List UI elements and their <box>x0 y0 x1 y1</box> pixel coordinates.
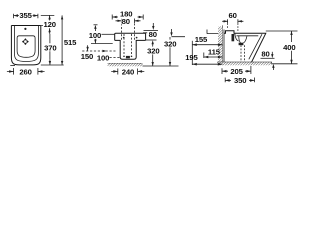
svg-text:320: 320 <box>164 39 176 48</box>
wide back rect <box>115 33 146 40</box>
svg-text:370: 370 <box>44 43 56 52</box>
dim 80 (top) <box>116 17 141 26</box>
ext of rect top to right <box>143 30 222 37</box>
svg-text:80: 80 <box>261 49 269 58</box>
dim 120 (right of left view) <box>41 15 57 33</box>
svg-text:205: 205 <box>230 67 243 76</box>
svg-text:400: 400 <box>283 43 295 52</box>
hidden dashed lines <box>122 23 135 40</box>
dim 320 left column <box>147 46 159 66</box>
dim 355 (top) <box>14 11 38 20</box>
dim 60 (top of side view) <box>222 11 243 31</box>
drain clover <box>22 38 29 45</box>
dim 155 <box>192 35 222 65</box>
dim 150 / 100 lower <box>81 45 120 62</box>
floor ext to 400 line <box>271 63 298 65</box>
svg-text:260: 260 <box>19 67 31 76</box>
svg-text:120: 120 <box>44 20 56 29</box>
dim 195 <box>185 53 222 66</box>
small dots bottom <box>123 56 125 58</box>
dim 515 <box>41 15 77 65</box>
dim 115 <box>204 48 223 59</box>
dim 240 (bottom) <box>111 67 144 76</box>
faucet hole dot <box>24 28 26 30</box>
svg-text:115: 115 <box>208 48 221 57</box>
dim 400 <box>281 31 298 64</box>
svg-text:60: 60 <box>228 11 236 20</box>
top ext to 400 <box>266 30 298 32</box>
jet nozzle dark <box>232 34 235 41</box>
bidet outer body <box>11 26 40 65</box>
dim 350 <box>225 76 254 85</box>
drain box <box>239 43 244 46</box>
inner shell pair <box>14 26 38 62</box>
dim 260 (bottom) <box>7 65 45 76</box>
svg-text:80: 80 <box>122 17 130 26</box>
floor ext line under columns <box>143 65 179 67</box>
drain mark <box>126 56 130 58</box>
svg-text:155: 155 <box>195 35 208 44</box>
svg-text:240: 240 <box>122 67 134 76</box>
svg-text:150: 150 <box>81 52 93 61</box>
svg-text:350: 350 <box>234 76 246 85</box>
svg-text:100: 100 <box>89 31 101 40</box>
wall hatch band under middle view <box>108 63 143 66</box>
svg-text:320: 320 <box>147 46 159 55</box>
rim opening <box>17 36 35 58</box>
left cluster: dim 100 upper <box>89 25 115 44</box>
svg-text:195: 195 <box>185 53 198 62</box>
bidet profile: hump + rim + front slant <box>224 31 266 63</box>
dim 205 <box>222 66 251 76</box>
technical dimension drawing: wall-hung bidet, three views <box>0 0 300 103</box>
wall double line <box>222 26 224 63</box>
wall hatch <box>218 27 222 63</box>
dim 180 <box>112 9 143 19</box>
svg-text:80: 80 <box>149 30 157 39</box>
dim 370 <box>44 34 56 65</box>
narrow bowl rect <box>115 40 146 59</box>
svg-text:515: 515 <box>64 38 77 47</box>
floor line <box>217 61 272 63</box>
svg-text:100: 100 <box>97 53 109 62</box>
svg-text:355: 355 <box>19 11 32 20</box>
dim 320 right column <box>164 29 176 66</box>
dim 80 (drain offset) <box>261 49 275 70</box>
floor hatch <box>217 62 271 65</box>
dim 80 (vertical, back ledge) <box>144 23 159 47</box>
drain pipe dashed <box>241 45 245 62</box>
